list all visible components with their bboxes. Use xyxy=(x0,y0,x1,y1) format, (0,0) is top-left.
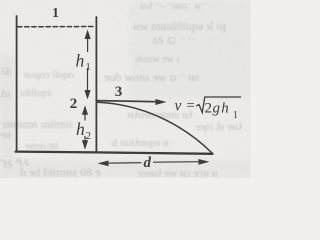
svg-text:58: 58 xyxy=(0,66,12,78)
svg-text:ɘub wons ɘw ɒ ⁻ ʜƨ: ɘub wons ɘw ɒ ⁻ ʜƨ xyxy=(104,70,200,84)
svg-text:ɿdiliupɘ: ɿdiliupɘ xyxy=(20,88,52,99)
svg-text:ɒɿɈ ⁻‒ ⁻ʜɒɿ⁻ ʜ⁻: ɒɿɈ ⁻‒ ⁻ʜɒɿ⁻ ʜ⁻ xyxy=(140,1,205,12)
h2 arrowhead up xyxy=(82,105,88,115)
svg-text:d noiɈɒupɘ ʜ: d noiɈɒupɘ ʜ xyxy=(112,137,169,149)
svg-text:ƨbɿow ɘw ɿ: ƨbɿow ɘw ɿ xyxy=(135,54,180,65)
velocity arrowhead xyxy=(156,99,167,105)
svg-text:2: 2 xyxy=(70,96,78,112)
tank bottom + ground line xyxy=(16,152,213,154)
d arrowhead right xyxy=(199,159,210,165)
svg-text:h: h xyxy=(76,119,85,139)
h1 dimension arrow shaft lower xyxy=(87,69,89,95)
radical sign xyxy=(196,97,241,113)
h2 dimension arrow shaft lower xyxy=(84,137,86,145)
svg-text:v: v xyxy=(175,98,182,115)
d arrowhead left xyxy=(98,161,109,167)
svg-text:2: 2 xyxy=(86,130,92,142)
svg-text:ɘƨɒɘɿɔni: ɘƨɒɘɿɔni xyxy=(25,141,59,152)
tank right wall xyxy=(95,17,97,152)
svg-text:h: h xyxy=(76,51,85,71)
svg-text:∆S 42 ⁻ ⁻⁻: ∆S 42 ⁻ ⁻⁻ xyxy=(152,36,197,47)
h1 arrowhead up (at water level) xyxy=(85,30,91,40)
svg-text:2: 2 xyxy=(205,101,213,117)
h2 arrowhead down xyxy=(82,140,88,150)
svg-text:ɘʜ: ɘʜ xyxy=(0,129,11,141)
velocity vector arrow shaft xyxy=(97,101,162,102)
svg-text:noqoɔ ilupo: noqoɔ ilupo xyxy=(24,70,74,81)
svg-text:b ɘd bliroʜƨ 08 ɘ: b ɘd bliroʜƨ 08 ɘ xyxy=(20,165,100,178)
svg-text:ʜɈɒɘnɿɘbnu ʜɈ: ʜɈɒɘnɿɘbnu ʜɈ xyxy=(128,109,193,121)
svg-text:ɘʞiɿ Ɉƨ ɘʜɈ: ɘʞiɿ Ɉƨ ɘʜɈ xyxy=(196,121,243,133)
svg-text:Ɉʜ: Ɉʜ xyxy=(0,88,10,100)
h2 dimension arrow shaft xyxy=(84,112,86,121)
svg-text:1: 1 xyxy=(52,6,59,21)
paper background xyxy=(0,0,251,178)
svg-text:ʜw muidiliupə ɿl oɟ: ʜw muidiliupə ɿl oɟ xyxy=(133,19,226,33)
h1 dimension arrow shaft upper xyxy=(87,33,89,52)
d dimension arrow shaft xyxy=(104,162,141,165)
svg-text:1: 1 xyxy=(233,110,238,121)
svg-text:3: 3 xyxy=(115,84,123,100)
svg-text:gh: gh xyxy=(213,101,230,117)
svg-text:=: = xyxy=(187,98,195,114)
svg-text:1: 1 xyxy=(86,62,91,73)
h1 arrowhead down (at hole level) xyxy=(84,90,90,100)
tank left wall xyxy=(16,16,18,152)
svg-text:ᒣS: ᒣS xyxy=(0,159,13,171)
trajectory curve xyxy=(97,102,213,153)
water level dashed line (node 1 level) xyxy=(18,26,96,28)
svg-text:ɿɘnnɒm ɿɒlimiƨ: ɿɘnnɒm ɿɒlimiƨ xyxy=(2,119,73,131)
svg-text:d: d xyxy=(144,155,152,171)
